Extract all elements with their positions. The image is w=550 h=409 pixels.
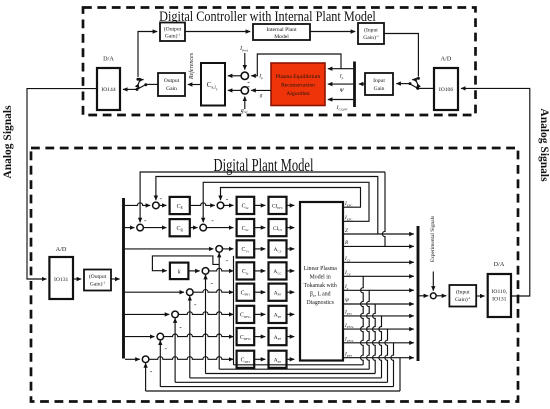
wire model output I_p to signal bus	[343, 289, 414, 291]
wire row1 right summer to C column	[224, 204, 234, 206]
block Plasma Equilibrium Reconstruction Algorithm (red)	[271, 63, 325, 106]
svg-text:Gain: Gain	[374, 86, 385, 92]
block C column row7	[237, 328, 255, 345]
block (Input Gain)^-1 (top)	[358, 23, 384, 44]
summing junction row1 left	[153, 202, 160, 209]
wire bus to row6 summer	[125, 313, 169, 315]
svg-text:Plasma Equilibrium: Plasma Equilibrium	[276, 74, 321, 80]
block A column row7	[269, 328, 287, 345]
block C column row4	[237, 262, 255, 279]
wire A to plasma model row5	[287, 291, 295, 293]
label Psi (red block input)	[340, 88, 345, 94]
label Experimental Signals (rotated)	[430, 216, 436, 262]
block A column row2	[269, 219, 287, 236]
title: Digital Controller with Internal Plant Model	[159, 8, 376, 24]
wire I_Pref into S1	[244, 53, 246, 70]
label References (rotated)	[188, 52, 195, 80]
wire I_p feedback drop	[219, 290, 369, 369]
minus at row1 left summer	[160, 193, 163, 202]
summing junction row2 left	[137, 224, 144, 231]
svg-text:Internal Plant: Internal Plant	[266, 27, 297, 33]
wire I_PF3 feedback drop	[146, 358, 400, 391]
svg-text:Output: Output	[164, 78, 180, 84]
left switch blade and arc	[137, 80, 145, 90]
summing junction S1 (Ip error)	[241, 72, 248, 79]
svg-text:ICF: ICF	[344, 270, 351, 276]
block A column row1	[269, 197, 287, 214]
block (Output Gain)^-1 (top)	[160, 23, 185, 42]
svg-text:Z: Z	[345, 228, 348, 234]
wire A to plasma model row6	[287, 313, 295, 315]
label g (at S2 input)	[260, 93, 263, 99]
wire g_ref into S2	[244, 97, 246, 109]
svg-text:(Input: (Input	[364, 26, 378, 33]
label Analog Signals (left, rotated)	[2, 105, 14, 179]
input bus (bottom left)	[122, 198, 125, 359]
wire row6 summer to C column	[178, 312, 233, 315]
wire R feedback loop to row2 left summer	[140, 172, 385, 246]
svg-text:Analog Signals: Analog Signals	[538, 108, 550, 182]
wire I_PF1 feedback riser to row5 summer	[189, 296, 191, 378]
label A/D (right)	[441, 56, 452, 63]
svg-text:Tokamak with: Tokamak with	[304, 283, 337, 289]
svg-text:R: R	[344, 240, 349, 246]
dashed frame: Digital Controller box	[83, 8, 476, 116]
block A column row3	[269, 240, 287, 257]
wire I_p feedback riser to row3 summer	[218, 253, 220, 369]
wire Psi feedback drop	[206, 304, 376, 374]
wire model output Z to signal bus	[343, 233, 414, 235]
wire model output I_CS to signal bus	[343, 261, 414, 263]
wire C_B to row2 right summer	[190, 227, 198, 229]
svg-text:Ip: Ip	[258, 74, 263, 80]
wire bus to row1 summer	[125, 203, 150, 206]
wire Internal Plant Model to (Input Gain)^-1	[310, 31, 355, 33]
svg-text:IPref: IPref	[239, 46, 249, 52]
wire Output Gain to left switch	[144, 83, 158, 86]
block C column row6	[237, 306, 255, 323]
label I_CS,PF (red block input)	[336, 105, 349, 112]
left switch contact from above	[136, 41, 139, 81]
wire A to plasma model row4	[287, 270, 295, 272]
svg-text:IO144: IO144	[101, 87, 115, 93]
wire S2 to controller C	[228, 89, 241, 91]
wire model output I_PF1 to signal bus	[343, 315, 414, 317]
wire IO144 out to left analog line down to IO131	[27, 89, 97, 279]
svg-text:Algorithm: Algorithm	[286, 91, 310, 97]
svg-text:Input: Input	[373, 78, 385, 84]
wire row3 summer to C column	[223, 248, 234, 250]
label I_p (red block input)	[339, 74, 344, 80]
svg-text:D/A: D/A	[494, 261, 505, 268]
wire model output I_PF2a to signal bus	[343, 328, 414, 330]
svg-text:-: -	[194, 299, 197, 308]
wire model output I_EFC2 feedback loop to row2 right summer	[203, 182, 369, 222]
svg-text:-: -	[179, 322, 182, 331]
block C column row3	[237, 240, 255, 257]
wire I_PF1 feedback drop	[190, 316, 382, 378]
wire (Output Gain)^-1 to input bus	[111, 278, 120, 280]
svg-text:A/D: A/D	[441, 56, 452, 63]
label model output 6	[344, 270, 351, 276]
block Input Gain	[365, 73, 393, 95]
svg-text:k: k	[178, 270, 181, 276]
svg-text:Ψ: Ψ	[345, 298, 350, 304]
svg-text:-: -	[150, 367, 153, 376]
svg-text:IPF2a: IPF2a	[344, 323, 354, 329]
svg-text:Analog Signals: Analog Signals	[2, 105, 14, 179]
wire experimental summer to (Input Gain)^-1	[436, 295, 446, 297]
wire bus to row7 summer	[125, 336, 155, 338]
wire A to plasma model row8	[287, 358, 295, 360]
minus at row7 summer	[164, 344, 167, 353]
block C column row5	[237, 284, 255, 301]
wire I_CF feedback drop	[234, 276, 364, 365]
wire row2 right summer to C column	[207, 227, 234, 229]
svg-text:References: References	[188, 52, 195, 80]
block (Input Gain)^-1 (bottom)	[449, 285, 476, 307]
svg-text:-: -	[226, 255, 229, 264]
block C column row1	[237, 197, 255, 214]
label model output 3	[345, 228, 348, 234]
block C_E	[170, 197, 190, 214]
wire row5 summer to C column	[193, 290, 233, 293]
block C column row8	[237, 351, 255, 368]
block A/D IO131	[49, 257, 73, 299]
wire C to A row6	[254, 313, 265, 315]
wire controller C to Output Gain	[188, 84, 201, 86]
wire C to A row3	[254, 248, 265, 250]
summing junction row4	[202, 268, 209, 275]
wire IO110/IO131 out up right analog line to IO106	[461, 88, 530, 296]
summing junction row2 right	[200, 224, 207, 231]
wire row2 summer to C_B	[143, 227, 166, 229]
svg-text:IO131: IO131	[54, 277, 68, 283]
wire I_PF2a feedback riser to row6 summer	[174, 318, 176, 382]
block Output Gain	[158, 73, 185, 96]
svg-text:IEFC: IEFC	[344, 215, 353, 221]
svg-text:A/D: A/D	[56, 246, 67, 253]
svg-text:-: -	[164, 344, 167, 353]
svg-text:-: -	[247, 82, 250, 91]
label D/A (left)	[103, 56, 114, 63]
wire left switch contact up to (Output Gain)^-1	[138, 32, 157, 42]
wire A to plasma model row1	[287, 204, 295, 206]
label model output 7	[344, 284, 349, 290]
label model output 1	[344, 201, 353, 207]
label A/D (bottom left)	[56, 246, 67, 253]
label model output 8	[345, 298, 350, 304]
wire C to A row8	[254, 358, 265, 360]
svg-text:(Output: (Output	[89, 273, 107, 280]
svg-text:IO106: IO106	[439, 87, 453, 93]
svg-text:Reconstruction: Reconstruction	[281, 83, 315, 89]
label model output 4	[344, 240, 349, 246]
summing junction row3	[216, 246, 223, 253]
minus at row3 summer	[226, 255, 229, 264]
label g_ref	[241, 108, 249, 114]
wire k loop tap	[152, 256, 219, 271]
block A/D IO106	[434, 68, 458, 110]
svg-text:Gain: Gain	[166, 86, 177, 92]
block A column row4	[269, 262, 287, 279]
wire Psi feedback riser to row4 summer	[205, 275, 207, 374]
measurement bus (top)	[353, 62, 356, 108]
wire red block g output to S2	[251, 89, 271, 91]
wire I_p feedback branch to S1	[251, 54, 341, 76]
wire C to A row4	[254, 270, 265, 272]
label model output 5	[344, 256, 351, 262]
wire k to row4 summer	[188, 270, 199, 272]
wire (Input Gain)^-1 to IO110/IO131	[476, 295, 484, 297]
minus at row2 left summer	[144, 216, 147, 225]
wire bus to row2 summer	[125, 227, 134, 229]
minus at row5 summer	[194, 299, 197, 308]
wire bus to red block input I_p	[328, 68, 353, 70]
minus at S2	[247, 82, 250, 91]
svg-text:IPF1: IPF1	[344, 310, 352, 316]
wire signal bus to experimental summer	[420, 295, 429, 297]
wire C to A row1	[254, 204, 265, 206]
svg-text:Ip: Ip	[344, 284, 349, 290]
minus at S1	[247, 78, 250, 87]
block Internal Plant Model	[253, 24, 310, 40]
block Linear Plasma Model	[300, 202, 343, 361]
minus at row4 summer	[210, 278, 213, 287]
label model output 12	[344, 352, 352, 358]
summing junction row6	[172, 311, 179, 318]
svg-text:Linear Plasma: Linear Plasma	[304, 266, 338, 272]
wire I_PF3 feedback riser to row8 summer	[145, 363, 147, 391]
wire (Input Gain)^-1 down to right switch contact	[384, 34, 420, 80]
wire I_CF feedback riser	[233, 256, 235, 365]
summing junction row8	[142, 356, 149, 363]
wire S1 to controller C	[228, 75, 241, 77]
wire right switch to Input Gain	[396, 82, 411, 85]
title: Digital Plant Model	[213, 156, 313, 176]
right switch blade and arc	[411, 80, 418, 89]
svg-text:IPF3: IPF3	[344, 352, 352, 358]
wire bus to red block input Psi	[328, 83, 353, 85]
svg-text:(Input: (Input	[456, 289, 470, 296]
label I_p (at S1 input)	[258, 74, 263, 80]
svg-text:Ψ: Ψ	[340, 88, 345, 94]
wire I_PF2b feedback riser to row7 summer	[159, 341, 161, 387]
summing junction row7	[157, 333, 164, 340]
wire I_PF2b feedback drop	[160, 343, 393, 387]
wire C to A row5	[254, 291, 265, 293]
wire bus to row8 summer	[125, 358, 140, 360]
block C column row2	[237, 219, 255, 236]
minus at row2 right summer	[211, 215, 214, 224]
wire C to A row2	[254, 227, 265, 229]
label D/A (bottom right)	[494, 261, 505, 268]
minus at row8 summer	[150, 367, 153, 376]
minus at row6 summer	[179, 322, 182, 331]
svg-text:D/A: D/A	[103, 56, 114, 63]
svg-text:(Output: (Output	[164, 25, 182, 32]
summing junction experimental signals	[430, 293, 436, 299]
svg-text:Diagnostics: Diagnostics	[307, 300, 335, 306]
wire I_PF2a feedback drop	[175, 329, 387, 382]
wire (Output Gain)^-1 to Internal Plant Model	[185, 31, 250, 33]
svg-text:-: -	[144, 216, 147, 225]
block D/A IO144	[97, 68, 120, 110]
wire model output I_PF3 to signal bus	[343, 357, 414, 359]
wire row8 summer to C column	[149, 357, 234, 360]
svg-text:IO131: IO131	[492, 297, 506, 303]
block k	[170, 263, 189, 280]
wire A to plasma model row3	[287, 248, 295, 250]
block A column row8	[269, 351, 287, 368]
minus at row1 right summer	[226, 194, 229, 203]
wire Input Gain to measurement bus	[359, 83, 365, 85]
svg-text:-: -	[226, 194, 229, 203]
wire row1 summer to C_E	[159, 204, 166, 206]
block C_B	[170, 219, 190, 236]
svg-text:-: -	[210, 278, 213, 287]
wire A to plasma model row7	[287, 336, 295, 338]
summing junction S2 (g error)	[241, 87, 248, 94]
label I_Pref	[239, 46, 249, 52]
summing junction row5	[187, 289, 194, 296]
wire model output Psi to signal bus	[343, 303, 414, 305]
svg-text:IO110,: IO110,	[492, 289, 508, 295]
wire experimental signals arrow into summer	[432, 272, 434, 291]
svg-text:Experimental Signals: Experimental Signals	[430, 216, 436, 262]
label model output 2	[344, 215, 353, 221]
svg-text:Digital Controller with Intern: Digital Controller with Internal Plant M…	[159, 8, 376, 24]
svg-text:Digital Plant Model: Digital Plant Model	[213, 156, 313, 176]
wire model output I_CF to signal bus	[343, 275, 414, 277]
wire row4 summer to C column	[209, 268, 234, 271]
svg-text:ICS,PF: ICS,PF	[336, 105, 349, 112]
block A column row6	[269, 306, 287, 323]
svg-text:Model in: Model in	[310, 275, 331, 281]
block A column row5	[269, 284, 287, 301]
summing junction row1 right	[217, 202, 224, 209]
wire row7 summer to C column	[164, 334, 234, 337]
block D/A IO110 IO131	[488, 274, 511, 317]
wire C to A row7	[254, 336, 265, 338]
wire model output I_EFC1 feedback loop to row1 right summer	[221, 188, 361, 208]
svg-text:ICS: ICS	[344, 256, 351, 262]
svg-text:Ip: Ip	[339, 74, 344, 80]
wire model output I_PF2b to signal bus	[343, 342, 414, 344]
label model output 11	[344, 337, 354, 343]
wire Z feedback loop to row1 left summer	[156, 177, 378, 235]
label Analog Signals (right, rotated)	[538, 108, 550, 182]
wire bus to row5 summer	[125, 291, 184, 293]
svg-text:-: -	[160, 193, 163, 202]
signal bus (bottom right)	[417, 226, 420, 361]
wire left switch to IO144	[123, 88, 139, 91]
svg-text:IPF2b: IPF2b	[344, 337, 354, 343]
wire model output R to signal bus	[343, 245, 414, 247]
svg-text:IEFC: IEFC	[344, 201, 353, 207]
svg-text:Model: Model	[274, 34, 289, 40]
wire A to plasma model row2	[287, 227, 295, 229]
svg-text:-: -	[211, 215, 214, 224]
dashed frame: Digital Plant Model box	[31, 148, 518, 402]
wire C_E to row1 right summer	[190, 203, 215, 206]
block (Output Gain)^-1 (bottom)	[84, 270, 111, 291]
wire bus to row3 summer	[125, 248, 213, 250]
wire bus to red block input I_CS,PF	[328, 99, 353, 101]
block controller C_a,Ip	[201, 63, 225, 106]
wire IO106 to right switch	[416, 87, 434, 90]
label model output 10	[344, 323, 354, 329]
svg-text:g: g	[260, 93, 263, 99]
wire IO131 to (Output Gain)^-1	[73, 278, 81, 280]
label model output 9	[344, 310, 352, 316]
